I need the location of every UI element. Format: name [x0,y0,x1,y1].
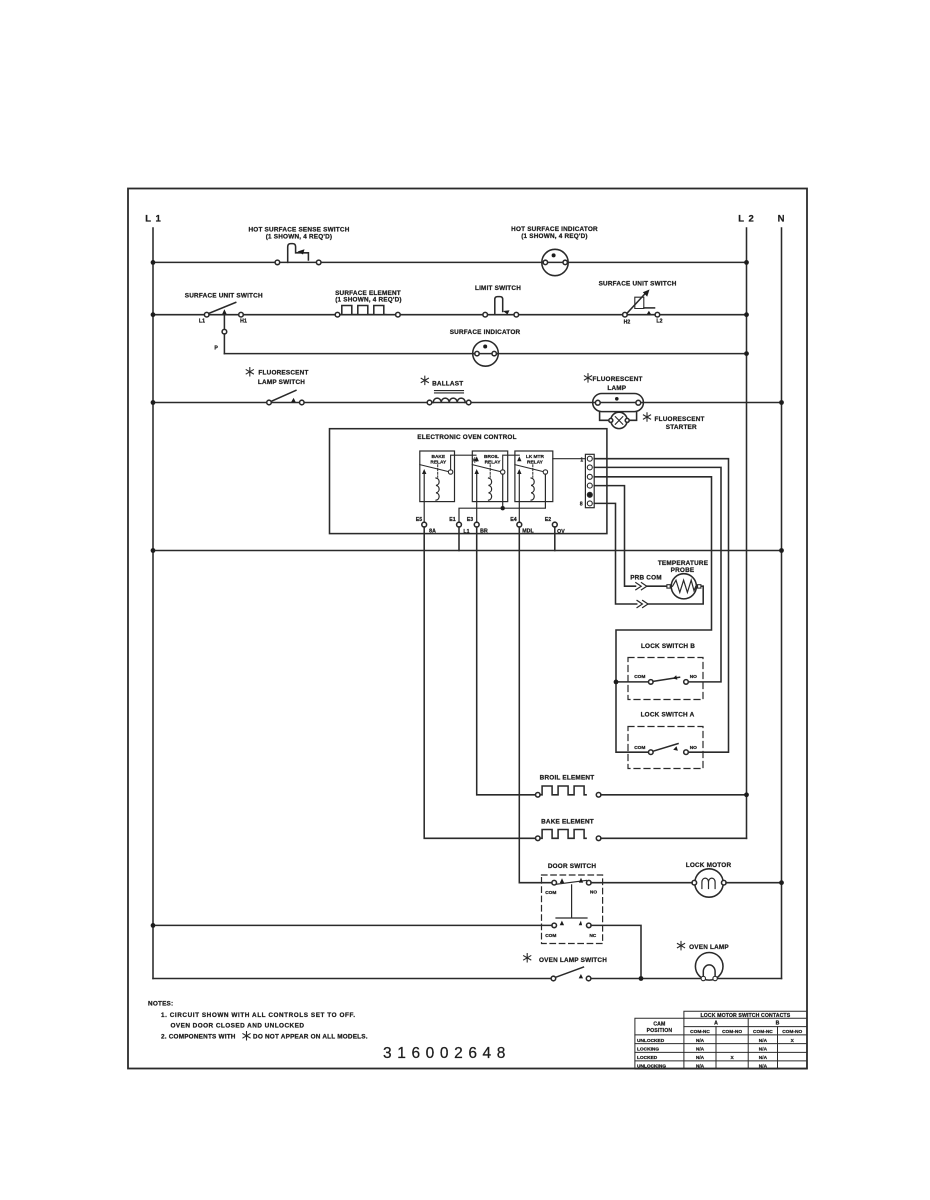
table lock motor switch contacts [635,1011,807,1069]
svg-text:E2: E2 [545,517,552,523]
svg-text:LAMP: LAMP [607,385,626,392]
junction rung2-L1 [151,312,156,317]
asterisk [677,941,684,949]
wire oven lamp rung L1 to N [153,978,782,980]
svg-text:OVEN LAMP SWITCH: OVEN LAMP SWITCH [539,957,607,964]
svg-text:POSITION: POSITION [647,1028,673,1034]
svg-text:E4: E4 [510,517,517,523]
switch S1 hot surface sense switch [248,227,349,265]
svg-text:N/A: N/A [759,1038,768,1044]
connector J1 [580,454,594,507]
svg-text:(1 SHOWN, 4 REQ'D): (1 SHOWN, 4 REQ'D) [266,233,333,240]
wire rung2 L1 to L2 [153,314,747,316]
svg-text:DO NOT APPEAR ON ALL MODELS.: DO NOT APPEAR ON ALL MODELS. [253,1034,368,1041]
switch S6 lock switch B [628,643,703,699]
svg-text:E3: E3 [467,517,474,523]
asterisk [584,374,591,382]
node L1 [145,214,162,225]
starter fluorescent starter [600,412,705,431]
svg-text:COM-NC: COM-NC [753,1029,773,1035]
svg-text:LK MTR: LK MTR [526,454,545,460]
lamp DS2 surface indicator [450,329,521,366]
svg-text:LOCK SWITCH A: LOCK SWITCH A [641,712,695,719]
svg-text:L2: L2 [656,319,662,325]
switch S7 lock switch A [628,712,703,769]
svg-text:N/A: N/A [759,1055,768,1061]
terminal E5 [422,522,427,527]
svg-text:MDL: MDL [522,529,534,535]
switch S5 fluorescent lamp switch [246,368,308,405]
svg-text:LOCK MOTOR SWITCH CONTACTS: LOCK MOTOR SWITCH CONTACTS [701,1013,791,1019]
svg-text:1. CIRCUIT SHOWN WITH ALL CON: 1. CIRCUIT SHOWN WITH ALL CONTROLS SET T… [161,1012,356,1019]
svg-text:8: 8 [580,502,583,508]
svg-text:PRB COM: PRB COM [630,574,662,581]
svg-text:(1 SHOWN, 4 REQ'D): (1 SHOWN, 4 REQ'D) [335,297,402,304]
junction motor-N [779,880,784,885]
svg-text:LOCK MOTOR: LOCK MOTOR [686,862,732,869]
terminal E1 [457,522,462,527]
wire door NC down to lamp rung [591,925,641,978]
wire rung4 L1 to N [153,550,782,552]
svg-text:NO: NO [690,674,697,680]
thermistor RT1 temperature probe [630,560,709,599]
terminal E2 [552,522,557,527]
svg-text:COM: COM [545,933,556,939]
junction broil NO rail [501,506,505,510]
asterisk [246,368,253,376]
wire broil element to L2 [601,794,747,796]
terminal E3 [474,522,479,527]
svg-text:RELAY: RELAY [485,460,502,466]
relay K1 bake relay [420,451,455,502]
svg-text:(1 SHOWN, 4 REQ'D): (1 SHOWN, 4 REQ'D) [521,233,588,240]
border frame [128,189,807,1069]
svg-text:L 1: L 1 [145,214,162,225]
svg-text:FLUORESCENT: FLUORESCENT [593,376,643,383]
wire E1 to rung4 [458,527,460,551]
switch S4 surface unit switch right [599,280,677,325]
wire E5 to bake element [424,527,535,838]
lamp fluorescent lamp [584,374,643,412]
asterisk small [473,458,477,463]
svg-text:2. COMPONENTS WITH: 2. COMPONENTS WITH [161,1034,236,1041]
junction rung-door-L1 [151,923,156,928]
svg-text:COM: COM [634,674,645,680]
controller U1 electronic oven control box [330,429,607,534]
svg-text:L1: L1 [463,529,469,535]
svg-text:H1: H1 [240,319,247,325]
svg-text:SURFACE INDICATOR: SURFACE INDICATOR [450,329,521,336]
svg-text:P: P [214,346,218,352]
svg-text:LOCK SWITCH B: LOCK SWITCH B [641,643,695,650]
wire pin8 to probe return [594,503,703,604]
svg-text:BALLAST: BALLAST [432,381,463,388]
svg-text:LAMP SWITCH: LAMP SWITCH [258,379,305,386]
terminal E4 [517,522,522,527]
wire door NO to lock motor [591,882,692,884]
resistor bake element [536,818,601,840]
junction rung4-L1 [151,548,156,553]
svg-text:NOTES:: NOTES: [148,1001,173,1008]
wire relay stems to terminals [424,474,519,522]
svg-text:NC: NC [589,933,596,939]
svg-text:PROBE: PROBE [671,567,695,574]
svg-text:COM: COM [545,890,556,896]
svg-text:N/A: N/A [696,1038,705,1044]
arrow PRB lower chevrons [637,600,648,607]
junction rung2-L2 [744,312,749,317]
resistor broil element [536,774,601,797]
node N [778,214,786,225]
wire E4 to door switch COM [519,527,552,883]
wire lock switch B COM branch [616,681,649,683]
svg-text:L1: L1 [199,319,205,325]
svg-text:SURFACE UNIT SWITCH: SURFACE UNIT SWITCH [599,280,677,287]
junction lamp rung [639,976,644,981]
wire pin2 to lock switch B NO [594,467,721,682]
wire pin4 to probe [594,486,666,587]
svg-text:X: X [730,1055,734,1061]
asterisk in note 2 [243,1032,250,1040]
label part number 316002648 [383,1045,511,1062]
svg-text:BR: BR [480,529,488,535]
resistor surface element [335,290,402,317]
note NOTES block [148,1001,368,1041]
svg-text:DOOR SWITCH: DOOR SWITCH [548,863,597,870]
svg-text:LOCKING: LOCKING [637,1047,659,1053]
wire broil coil common to E1 and lock NO [459,474,545,522]
svg-text:RELAY: RELAY [430,460,447,466]
svg-text:8A: 8A [429,529,436,535]
svg-text:BAKE ELEMENT: BAKE ELEMENT [541,818,594,825]
svg-text:BAKE: BAKE [432,454,446,460]
svg-text:LIMIT SWITCH: LIMIT SWITCH [475,285,521,292]
svg-text:E5: E5 [416,517,423,523]
svg-text:NO: NO [690,745,697,751]
svg-text:ELECTRONIC OVEN CONTROL: ELECTRONIC OVEN CONTROL [417,434,516,441]
svg-text:N/A: N/A [759,1063,768,1069]
wire E3 to broil element [477,527,536,795]
svg-text:FLUORESCENT: FLUORESCENT [655,416,705,423]
wire P sub-rung to L2 [224,353,746,355]
wire lock relay NO to pin1 [553,458,586,460]
svg-text:N: N [778,214,786,225]
svg-text:STARTER: STARTER [666,424,697,431]
lamp E1 oven lamp [677,941,729,980]
asterisk [524,954,531,962]
svg-text:CAM: CAM [653,1021,665,1027]
svg-text:LOCKED: LOCKED [637,1055,658,1061]
switch S9 oven lamp switch [524,954,608,981]
junction rung3-L1 [151,400,156,405]
wire N rail [781,228,783,979]
wire pin1 to lock switch A NO [594,459,728,753]
svg-text:COM: COM [634,745,645,751]
svg-text:E1: E1 [449,517,456,523]
svg-text:UNLOCKING: UNLOCKING [637,1063,666,1069]
relay K2 broil relay [472,451,507,502]
junction subrung-L2 [744,351,749,356]
wire bake NO to broil arm [451,455,520,470]
svg-text:OVEN DOOR CLOSED AND UNLOCKED: OVEN DOOR CLOSED AND UNLOCKED [171,1023,305,1030]
svg-text:OVEN LAMP: OVEN LAMP [689,944,729,951]
asterisk [421,376,428,384]
switch S2 surface unit switch left [185,293,263,354]
junction rung4-N [779,548,784,553]
junction rung1-L1 [151,260,156,265]
junction lock B COM [614,680,619,685]
svg-text:COM-NO: COM-NO [722,1029,742,1035]
motor M1 lock motor [686,862,732,897]
wire L2 rail [746,228,748,838]
switch S3 limit switch [475,285,521,317]
svg-text:BROIL ELEMENT: BROIL ELEMENT [540,774,595,781]
junction rung1-L2 [744,260,749,265]
arrow PRB upper chevrons [636,583,647,590]
inductor ballast [421,376,471,405]
svg-text:X: X [791,1038,795,1044]
svg-text:316002648: 316002648 [383,1045,511,1062]
wire rung3 L1 to N [153,402,782,404]
svg-text:COM-NO: COM-NO [782,1029,802,1035]
wire pin3 to lock switch commons [594,477,711,752]
node L2 [738,214,755,225]
wire lock motor to N [726,882,781,884]
junction broil-L2 [744,792,749,797]
wire E2 to rung4 [554,527,556,551]
svg-text:H2: H2 [624,319,631,325]
svg-text:UNLOCKED: UNLOCKED [637,1038,665,1044]
svg-text:FLUORESCENT: FLUORESCENT [258,370,308,377]
relay K3 lock motor relay [515,451,553,502]
wire bake element to L2 end [601,837,747,839]
svg-text:N/A: N/A [696,1063,705,1069]
svg-text:N/A: N/A [696,1047,705,1053]
svg-text:COM-NC: COM-NC [690,1029,710,1035]
svg-text:B: B [776,1021,780,1027]
lamp DS1 hot surface indicator [511,226,598,276]
svg-text:RELAY: RELAY [527,460,544,466]
wire L1 rail [152,228,154,979]
svg-text:BROIL: BROIL [484,454,499,460]
svg-text:OV: OV [557,529,565,535]
junction rung3-N [779,400,784,405]
wire rung1 L1 to L2 [153,261,747,263]
asterisk [643,413,650,421]
svg-text:L 2: L 2 [738,214,755,225]
wire L1 to door switch lower COM [153,924,552,926]
svg-text:SURFACE UNIT SWITCH: SURFACE UNIT SWITCH [185,293,263,300]
svg-text:N/A: N/A [759,1047,768,1053]
svg-text:NO: NO [590,890,597,896]
svg-text:A: A [714,1021,718,1027]
switch S8 door switch [542,863,603,943]
svg-text:N/A: N/A [696,1055,705,1061]
